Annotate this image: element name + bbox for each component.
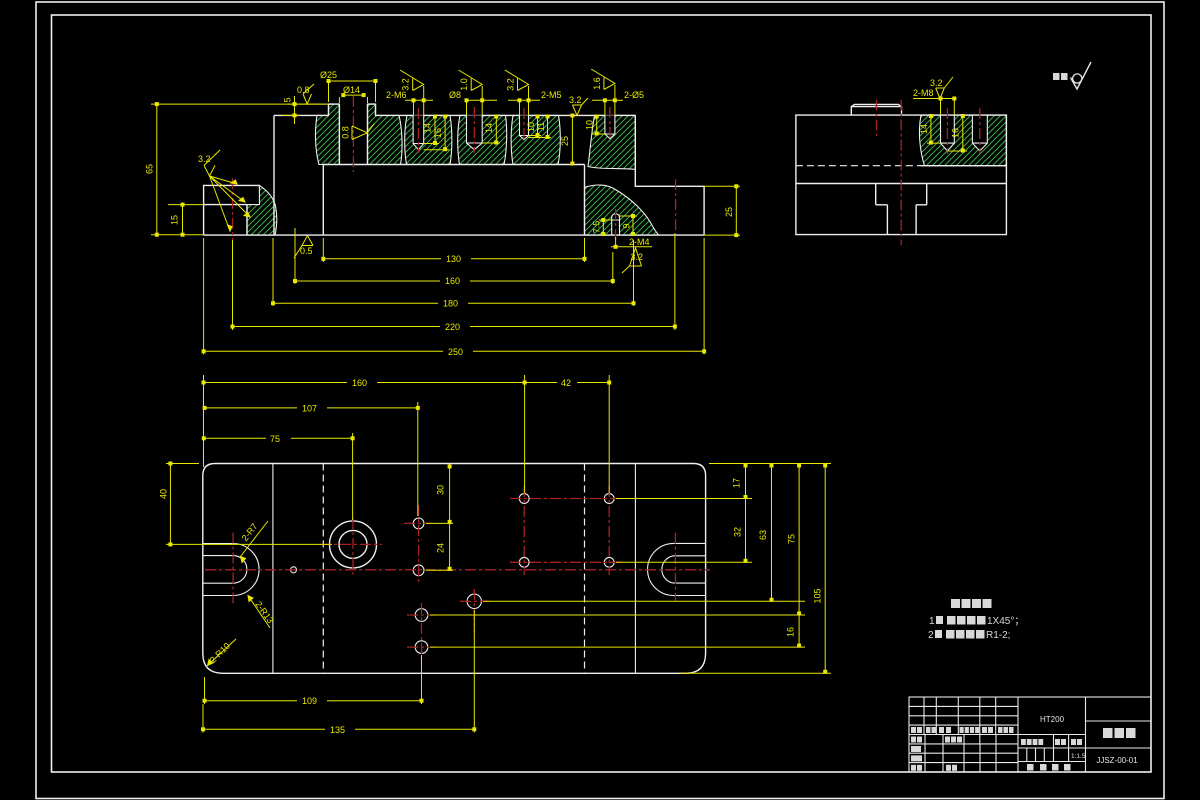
- body left edge: [273, 115, 275, 235]
- svg-text:1.0: 1.0: [459, 78, 469, 91]
- svg-text:JJSZ-00-01: JJSZ-00-01: [1096, 756, 1138, 765]
- dim 17 plan: [616, 464, 831, 499]
- svg-text:107: 107: [302, 403, 317, 413]
- dim 16 at M8: [947, 115, 967, 153]
- centerline phi8: [473, 107, 475, 153]
- M8 tapped hole 1 void: [941, 115, 955, 151]
- bottom edge: [204, 234, 704, 236]
- hole G circle: [467, 594, 481, 608]
- right clamp slot inner: [662, 556, 706, 583]
- svg-text:32: 32: [733, 527, 743, 537]
- svg-text:10: 10: [526, 122, 536, 132]
- dim 2-M8: [913, 97, 956, 115]
- dim 42 plan: [525, 375, 611, 493]
- centerline hole G: [460, 589, 489, 633]
- roughness 3.2 at 2-M8: [936, 77, 953, 99]
- right column rows: [1086, 721, 1152, 748]
- dim 65: [151, 103, 326, 237]
- svg-text:63: 63: [758, 530, 768, 540]
- bolt hole E circle: [519, 557, 529, 567]
- svg-text:0.8: 0.8: [297, 85, 310, 95]
- leader 2-R10: [208, 639, 237, 666]
- leader 2-R7: [241, 521, 269, 563]
- hidden pocket top dashed: [796, 165, 920, 167]
- svg-text:75: 75: [270, 434, 280, 444]
- dim 25 band right: [571, 114, 574, 165]
- dim 160: [294, 228, 615, 284]
- hatch island left of phi14 hole: [315, 104, 339, 164]
- left lug outline: [204, 185, 260, 235]
- row gongyi and pizhun: [911, 765, 916, 771]
- centerline boss axis: [876, 100, 878, 136]
- centerline phi5: [609, 107, 611, 142]
- svg-text:135: 135: [330, 725, 345, 735]
- dim 2-M5: [508, 86, 540, 115]
- svg-text:105: 105: [813, 588, 823, 603]
- hidden pocket edge left dashed: [322, 464, 324, 674]
- dim 5 boss height: [282, 96, 329, 124]
- dim 105 plan: [680, 464, 831, 674]
- roughness 0.8 inside phi14 hole: [352, 124, 375, 140]
- svg-text:Ø25: Ø25: [320, 70, 337, 80]
- technical requirements heading: [951, 599, 960, 608]
- dim 75 plan right: [430, 464, 805, 616]
- roughness 0.5 on bottom face: [294, 236, 313, 259]
- dim 14 16 at M6: [424, 115, 449, 151]
- centerline side view axis: [900, 100, 902, 246]
- roughness 3.2 rotated at M6 ext: [400, 70, 424, 91]
- M4 tapped hole in right lug: [612, 214, 620, 235]
- hole A circle: [413, 518, 424, 529]
- dim 16 plan: [430, 615, 805, 647]
- svg-text:9: 9: [622, 223, 632, 228]
- centerline M5: [523, 108, 525, 143]
- roughness 1.6 rotated at phi5 ext: [591, 69, 615, 90]
- svg-text:25: 25: [560, 136, 570, 146]
- bolt hole C circle: [519, 494, 529, 504]
- centerline right hidden hole: [675, 179, 677, 231]
- bolt hole D circle: [604, 494, 614, 504]
- dim 109 plan: [203, 655, 423, 704]
- dim 15: [168, 203, 204, 236]
- row sheji: [911, 737, 916, 743]
- svg-text:24: 24: [436, 543, 446, 553]
- hatch island around M6 hole: [405, 115, 452, 164]
- dim 24 plan: [426, 523, 453, 570]
- dim 63 plan: [483, 464, 805, 602]
- boss on top: [851, 104, 901, 115]
- roughness 3.2 below M4: [622, 248, 642, 273]
- dim 30 plan: [426, 464, 453, 524]
- pocket cavity outline: [323, 165, 584, 236]
- big hole phi25 boss circle: [330, 521, 377, 568]
- body edge line right: [634, 464, 636, 674]
- svg-text:1.6: 1.6: [592, 77, 602, 90]
- roughness 3.2 with leaders at left lug: [204, 150, 250, 231]
- pocket top solid under section: [920, 165, 1006, 167]
- right clamp slot outer: [648, 543, 706, 595]
- svg-text:180: 180: [443, 299, 458, 309]
- svg-text:11: 11: [536, 122, 546, 131]
- dim 220: [231, 233, 676, 330]
- roughness 0.8 on boss ext line: [303, 84, 314, 104]
- svg-text:250: 250: [448, 347, 463, 357]
- hatch island around phi8 hole: [458, 115, 507, 164]
- dim 7.5 and 9 at M4: [599, 215, 637, 236]
- dim 32 plan: [616, 499, 752, 563]
- M5 tapped hole void: [520, 115, 529, 139]
- svg-text:30: 30: [436, 485, 446, 495]
- svg-text:14: 14: [484, 123, 494, 133]
- svg-text:16: 16: [785, 627, 795, 637]
- svg-text:40: 40: [159, 489, 169, 499]
- bolt hole F circle: [604, 557, 614, 567]
- body edge line left: [272, 464, 274, 674]
- svg-text:2: 2: [928, 630, 934, 641]
- svg-text:1X45°；: 1X45°；: [987, 616, 1024, 627]
- hidden pocket edge right dashed: [584, 464, 586, 674]
- plan outline rounded plate: [203, 464, 706, 674]
- hole I circle: [415, 641, 428, 654]
- svg-text:Ø14: Ø14: [343, 85, 360, 95]
- bolt pattern centerline rectangle: [510, 486, 623, 575]
- right lug outline: [635, 186, 704, 235]
- svg-text:16: 16: [433, 128, 443, 138]
- stage mark boxes: [1027, 748, 1045, 762]
- dim 75 plan top: [202, 433, 354, 520]
- dim phi14: [339, 94, 367, 103]
- side view body outline: [796, 115, 1007, 235]
- svg-text:HT200: HT200: [1040, 715, 1065, 724]
- dim 107 plan: [203, 402, 419, 516]
- roughness 3.2 rotated at M5 ext: [505, 70, 529, 91]
- hatch island phi5 holes and right column: [588, 115, 635, 169]
- svg-text:160: 160: [352, 378, 367, 388]
- svg-text:15: 15: [170, 215, 180, 225]
- centerline M6: [417, 108, 419, 153]
- left grid columns upper: [924, 697, 996, 744]
- svg-text:25: 25: [724, 207, 734, 217]
- centerline phi14: [352, 96, 354, 172]
- svg-text:0.8: 0.8: [341, 126, 351, 139]
- svg-text:220: 220: [445, 322, 460, 332]
- svg-text:2-M8: 2-M8: [913, 88, 934, 98]
- dim 14 at phi8: [482, 115, 500, 144]
- hatch local section right side: [919, 115, 1006, 166]
- tongue step profile: [876, 184, 927, 235]
- centerline left lug hole: [232, 178, 234, 240]
- svg-text:0.5: 0.5: [300, 246, 313, 256]
- svg-text:10: 10: [585, 120, 595, 130]
- hatch left lug section: [247, 185, 277, 235]
- roughness 1.0 rotated at phi8 ext: [459, 70, 483, 91]
- svg-text:65: 65: [145, 164, 155, 174]
- svg-text:14: 14: [919, 124, 929, 134]
- M6 tapped hole void: [413, 115, 424, 149]
- svg-text:109: 109: [302, 696, 317, 706]
- dim 40 plan left: [166, 462, 332, 546]
- dim 250: [202, 238, 705, 355]
- centerline right slot: [674, 533, 676, 601]
- vertical divider left/middle: [1018, 697, 1086, 772]
- svg-text:7.5: 7.5: [592, 221, 602, 234]
- svg-text:3.2: 3.2: [930, 78, 943, 88]
- part name jiajuti blobs: [1103, 728, 1113, 738]
- svg-text:2-M5: 2-M5: [541, 90, 562, 100]
- phi8 hole void: [467, 115, 483, 149]
- svg-text:1:1.5: 1:1.5: [1071, 753, 1086, 760]
- middle label columns: [1054, 735, 1069, 762]
- svg-text:17: 17: [732, 478, 742, 488]
- dim 2-M6: [405, 86, 433, 115]
- phi25 boss top and walls: [329, 104, 376, 115]
- hole B circle: [413, 565, 424, 576]
- middle labels jieduanbiaoji zhongliang bili: [1021, 739, 1026, 745]
- qiyu roughness symbol with circle: [1071, 62, 1092, 89]
- svg-text:3.2: 3.2: [631, 252, 644, 262]
- M8 tapped hole 2 void: [972, 115, 987, 151]
- svg-text:3.2: 3.2: [198, 154, 211, 164]
- svg-text:5: 5: [283, 97, 293, 102]
- left grid rows: [909, 706, 1018, 762]
- phi14 hole walls: [339, 104, 367, 164]
- hatch island around M5 hole: [511, 115, 560, 164]
- dim 135 plan: [202, 610, 476, 733]
- phi5 hole void: [605, 115, 615, 138]
- centerline M8 hole 2: [979, 108, 981, 154]
- header row labels blobs: biaoji chushu fenqu gaiwenjianhao qianming nianyueri: [911, 727, 916, 733]
- svg-text:R1-2;: R1-2;: [986, 630, 1010, 641]
- row biaozhun: [911, 755, 922, 761]
- big hole phi14 circle: [339, 530, 367, 558]
- dim phi8: [465, 86, 497, 115]
- hatch island right of phi14 hole: [368, 104, 403, 164]
- dim 2-phi5: [592, 85, 623, 115]
- hole H circle: [415, 609, 428, 622]
- leader 2-R13: [248, 596, 270, 629]
- svg-text:3.2: 3.2: [505, 78, 515, 91]
- svg-text:2-Ø5: 2-Ø5: [624, 90, 644, 100]
- dim phi25: [327, 79, 377, 102]
- centerline left slot: [232, 533, 234, 604]
- svg-text:3.2: 3.2: [401, 78, 411, 91]
- svg-text:42: 42: [561, 378, 571, 388]
- title block outer box: [909, 697, 1151, 772]
- centerline holes H I: [407, 603, 436, 660]
- svg-text:75: 75: [786, 534, 796, 544]
- svg-text:130: 130: [446, 254, 461, 264]
- centerline M8 hole 1: [946, 108, 948, 154]
- dim 10 at phi5: [592, 115, 605, 135]
- main horizontal centerline: [205, 569, 710, 571]
- middle rows: [1018, 735, 1086, 762]
- label 2-M4: [611, 237, 652, 248]
- dim 130: [322, 238, 586, 262]
- centerline M4: [615, 209, 617, 242]
- bottom row gong zhang di zhang blobs: [1027, 764, 1034, 771]
- dim 25 right lug: [704, 185, 740, 237]
- svg-text:14: 14: [423, 123, 433, 133]
- small pin hole: [291, 567, 297, 573]
- body right edge: [634, 115, 636, 187]
- lug top line: [796, 183, 1007, 185]
- centerline holes A B: [404, 505, 433, 585]
- left grid columns lower: [925, 735, 996, 773]
- svg-text:1: 1: [929, 616, 935, 627]
- left clamp slot inner: [203, 556, 247, 584]
- dim 160 plan: [202, 375, 526, 493]
- row shenhe: [911, 746, 921, 752]
- left clamp slot outer: [203, 544, 259, 596]
- roughness 3.2 on top face right: [573, 98, 589, 115]
- svg-text:2-M4: 2-M4: [629, 237, 650, 247]
- svg-text:160: 160: [445, 276, 460, 286]
- dim 14 at M8: [927, 115, 941, 145]
- dim 10 11 at M5: [529, 115, 552, 139]
- qiyu (other surfaces) text: [1053, 73, 1060, 80]
- dim 180: [272, 238, 636, 306]
- centerline cross big hole: [320, 518, 382, 575]
- hatch lower-right lobe with 2-M4: [585, 185, 659, 235]
- svg-text:16: 16: [951, 128, 961, 138]
- svg-text:3.2: 3.2: [569, 95, 582, 105]
- top face line: [274, 114, 635, 116]
